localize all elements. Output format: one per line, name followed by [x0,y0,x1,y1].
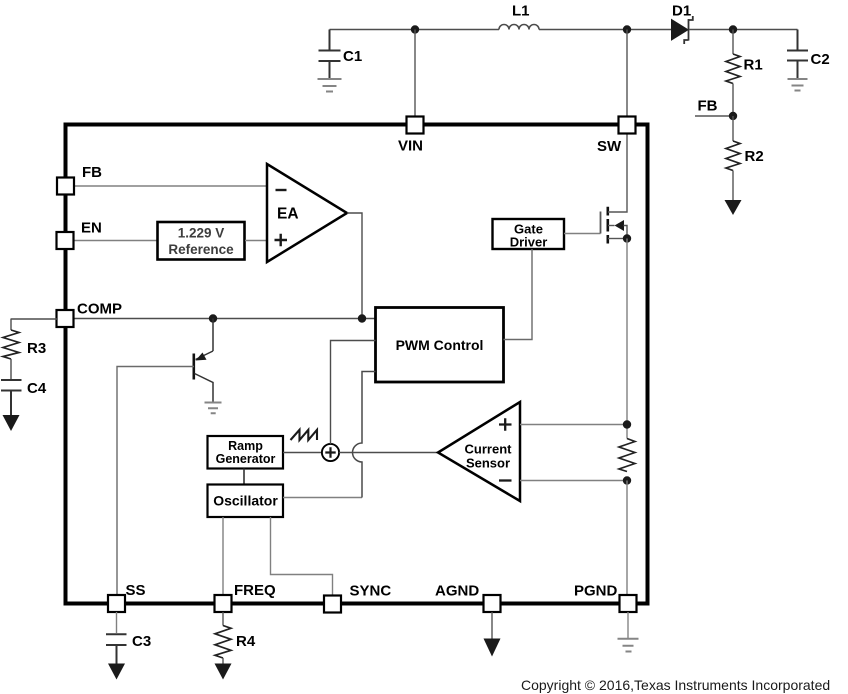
wire Current Sensor - input [520,480,627,482]
inductor L1 [499,25,539,30]
svg-text:EN: EN [81,220,102,237]
block Ramp Generator [208,436,284,469]
svg-text:Copyright © 2016,Texas Instrum: Copyright © 2016,Texas Instruments Incor… [521,677,830,693]
svg-text:Sensor: Sensor [466,456,510,471]
svg-text:PWM Control: PWM Control [396,337,484,353]
svg-text:R4: R4 [236,633,256,650]
pin COMP [57,310,74,327]
wire SS pin to C3 [116,612,118,633]
wire SW drop to pin [626,30,628,117]
node junction dot COMP / clamp transistor [209,314,217,322]
pin SW [619,117,636,134]
wire Ramp Generator to summer [283,452,322,454]
pin VIN [407,117,424,134]
wire PWM Control to Gate Driver [504,249,533,340]
capacitor C1 [319,30,341,79]
svg-text:SW: SW [597,138,622,155]
wire reference to EA non-inverting input [245,240,267,242]
svg-text:VIN: VIN [398,138,423,155]
svg-text:FB: FB [82,164,102,181]
ground arrow under C3 [108,664,125,680]
pin PGND [620,595,637,612]
svg-text:COMP: COMP [77,301,122,318]
svg-text:FB: FB [698,98,718,115]
ground arrow under C4 [3,415,20,431]
svg-text:D1: D1 [672,3,691,20]
wire Oscillator to SYNC pin [271,517,333,595]
ground arrow under R4 [215,658,232,680]
resistor R3 [3,330,19,359]
svg-text:FREQ: FREQ [234,582,276,599]
svg-text:Generator: Generator [216,452,276,466]
svg-text:Driver: Driver [510,235,548,250]
svg-text:SYNC: SYNC [350,583,392,600]
svg-text:Current: Current [465,442,513,457]
wire FB pin to EA inverting input [75,185,267,187]
svg-text:C1: C1 [343,48,362,65]
wire EN pin to reference [74,240,157,242]
svg-text:Reference: Reference [168,242,234,257]
node junction dot above VIN [411,25,419,33]
block 1.229 V Reference [158,222,245,260]
pin EN [57,232,74,249]
wire MOSFET source down to sense resistor [626,239,628,439]
capacitor C4 [1,380,22,416]
node junction dot MOSFET source [623,234,631,242]
wire FB stub (right) [695,115,733,117]
wire top rail (D1 cathode to C2) [689,29,798,31]
svg-text:SS: SS [126,582,146,599]
wire summer output to PWM Control [331,341,376,444]
wire FREQ pin to R4 [222,612,224,626]
node junction dot COMP / EA output [358,314,366,322]
node junction dot above SW [623,25,631,33]
summer (adder) node [322,444,339,461]
svg-text:C4: C4 [27,380,47,397]
wire sense resistor to PGND pin [626,481,628,596]
resistor Rsense [619,439,635,472]
wire EA output to COMP net [347,213,362,319]
svg-text:Ramp: Ramp [228,439,263,453]
wire down to R3 [10,319,12,331]
node junction dot sense resistor bottom [623,476,631,484]
op-amp Current Sensor [438,402,520,501]
svg-text:C2: C2 [811,51,830,68]
wire D1 cathode node down to R1 [732,30,734,55]
svg-text:L1: L1 [512,3,530,20]
block Gate Driver [493,219,565,250]
pin FB [57,178,74,195]
wire top input rail left (C1 to L1) [330,29,500,31]
wire top rail (L1 to D1 anode) [539,29,672,31]
block Oscillator [208,485,284,518]
pin FREQ [215,595,232,612]
wire R3 to C4 [10,359,12,379]
wire COMP pin to external compensation [11,318,57,320]
svg-text:Oscillator: Oscillator [213,493,278,509]
sawtooth ramp waveform icon [291,430,318,440]
node junction dot FB divider [729,112,737,120]
wire transistor base to SS pin [117,367,194,596]
ground under C1 [318,79,342,92]
svg-text:PGND: PGND [574,583,618,600]
pin AGND [484,595,501,612]
resistor R1 [726,54,740,84]
diode D1 (Schottky) [672,16,693,44]
wire FB node to R2 [732,116,734,141]
resistor R4 [215,626,231,659]
wire Current Sensor + input [520,424,627,426]
wire Gate Driver to MOSFET gate [564,233,601,235]
wire Oscillator to FREQ pin [222,517,224,595]
svg-text:R3: R3 [27,340,46,357]
svg-text:R2: R2 [745,148,764,165]
node junction dot sense resistor top [623,420,631,428]
IC block outline [66,125,648,604]
node junction dot at D1 cathode / VOUT [729,25,737,33]
wire Oscillator clock to PWM Control (with hop) [283,497,362,499]
svg-text:AGND: AGND [435,583,479,600]
pin SS [108,595,125,612]
transistor M1 (power NMOS) [601,134,628,244]
ground arrow under AGND [484,612,501,657]
ground arrow under R2 [725,171,742,216]
wire summer to Current Sensor output [339,452,438,454]
capacitor C2 [787,30,808,79]
svg-text:EA: EA [277,206,299,223]
block PWM Control [376,308,504,383]
ground under PGND [618,612,639,652]
ground under C2 [788,79,808,91]
svg-text:C3: C3 [132,633,151,650]
wire Ramp Generator to Oscillator [243,469,245,485]
pin SYNC [324,596,341,613]
wire COMP net horizontal [74,318,376,320]
svg-text:R1: R1 [744,57,763,74]
wire R1 to FB node [732,84,734,117]
ground under transistor [205,403,222,414]
wire VIN drop [414,30,416,117]
capacitor C3 [106,634,127,665]
resistor R2 [726,141,740,171]
op-amp EA error amplifier [267,164,347,262]
svg-text:1.229 V: 1.229 V [178,226,225,241]
transistor Q1 (PNP clamp) [194,319,213,403]
